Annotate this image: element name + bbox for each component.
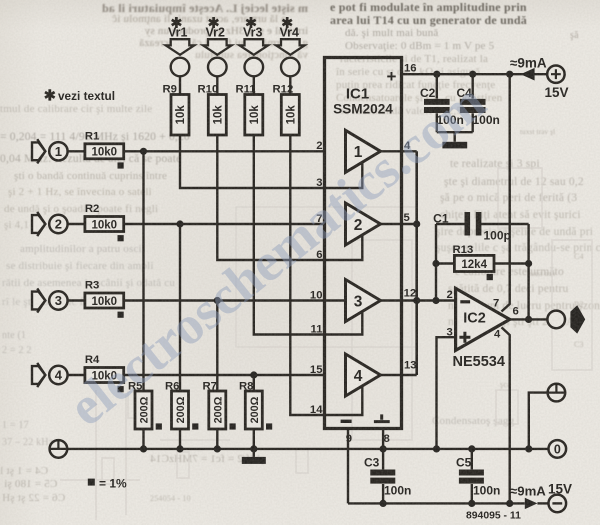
wire divider column ch1 — [142, 151, 144, 391]
svg-text:200Ω: 200Ω — [249, 396, 261, 423]
svg-text:894095 - 11: 894095 - 11 — [466, 511, 521, 522]
node earth stub — [525, 445, 532, 452]
note vezi textul — [45, 89, 115, 103]
wire input1 row (pin 2) — [68, 150, 325, 152]
wire feedback left stub — [435, 224, 437, 301]
svg-text:5: 5 — [404, 212, 410, 224]
svg-text:14: 14 — [310, 404, 323, 416]
resistor R8 200R — [239, 380, 272, 449]
wire feedback right stub — [527, 224, 529, 319]
note 1 percent — [88, 476, 127, 490]
node feedback R13 left — [432, 260, 439, 267]
resistor R1 10k0 — [85, 130, 124, 168]
svg-text:Vr1: Vr1 — [168, 26, 188, 40]
wire pin16 supply rail — [402, 73, 548, 75]
op-amp cell 3 — [346, 280, 381, 322]
svg-text:2: 2 — [55, 217, 62, 232]
svg-text:2: 2 — [447, 289, 453, 301]
svg-text:100p: 100p — [484, 228, 511, 242]
svg-text:10k: 10k — [285, 105, 297, 125]
svg-text:11: 11 — [311, 323, 323, 335]
svg-text:4: 4 — [354, 368, 363, 385]
svg-text:R6: R6 — [165, 380, 179, 392]
svg-text:C1: C1 — [433, 211, 449, 225]
svg-text:8: 8 — [384, 433, 390, 445]
svg-text:Vr2: Vr2 — [206, 26, 226, 40]
svg-text:R9: R9 — [163, 84, 177, 96]
wire IC2 output — [510, 318, 548, 320]
svg-text:+: + — [387, 67, 397, 86]
wire pin 6 row from Vr2 column — [217, 135, 362, 260]
input connector J2 — [32, 212, 68, 236]
svg-text:≈9mA: ≈9mA — [510, 484, 546, 499]
input connector J1 — [32, 139, 68, 163]
node divider ch2 — [176, 220, 183, 227]
wire output amp4 to bus — [381, 374, 417, 376]
wire summing bus — [415, 151, 418, 375]
node bus R8 — [250, 445, 257, 452]
node feedback input — [432, 297, 439, 304]
node bus R6 — [176, 445, 183, 452]
svg-text:2: 2 — [316, 140, 322, 152]
control pot arrow Vr2 — [203, 17, 231, 95]
svg-text:200Ω: 200Ω — [212, 396, 224, 423]
arrow current 9mA top — [521, 68, 535, 81]
node feedback output — [525, 316, 532, 323]
node C2 top — [433, 71, 440, 78]
capacitor C1 100p — [433, 211, 528, 242]
node IC2 pin7 top — [506, 71, 513, 78]
svg-text:NE5534: NE5534 — [453, 354, 505, 370]
node bus R5 — [140, 445, 147, 452]
terminal +15V — [545, 66, 569, 101]
node bus R7 — [214, 445, 221, 452]
IC1 V- mark — [341, 420, 352, 423]
svg-text:Vr4: Vr4 — [280, 26, 300, 40]
svg-text:R7: R7 — [203, 380, 217, 392]
resistor R4 10k0 — [85, 354, 124, 392]
terminal 0V — [549, 440, 567, 458]
IC1 gnd mark — [374, 414, 390, 421]
resistor R5 200R — [128, 380, 162, 449]
pin labels IC2 — [447, 289, 519, 340]
node C4 top — [469, 71, 476, 78]
wire divider column ch3 — [216, 301, 218, 392]
ground bar bottom — [242, 449, 266, 464]
IC1 SSM2024 box — [325, 58, 402, 429]
ground bar top — [442, 142, 467, 149]
wire -15V rail — [348, 502, 525, 504]
pin labels IC1 right and bottom — [346, 63, 417, 445]
control pot arrow Vr1 — [166, 17, 194, 95]
op-amp cell 4 — [346, 354, 381, 396]
svg-text:R10: R10 — [198, 84, 219, 96]
svg-text:SSM2024: SSM2024 — [333, 102, 393, 117]
svg-text:R1: R1 — [85, 130, 99, 142]
svg-text:100n: 100n — [384, 483, 411, 497]
svg-text:15: 15 — [310, 364, 323, 376]
wire divider column ch4 — [253, 375, 255, 391]
wire pin 3 row from Vr1 column — [180, 135, 362, 188]
svg-text:16: 16 — [404, 63, 417, 75]
svg-text:6: 6 — [513, 305, 519, 317]
svg-text:0: 0 — [554, 443, 561, 457]
svg-text:R2: R2 — [85, 203, 99, 215]
svg-text:Vr3: Vr3 — [243, 26, 263, 40]
pin labels IC1 left — [310, 140, 323, 416]
node divider ch4 — [250, 371, 257, 378]
node C3 rail — [380, 500, 387, 507]
op-amp U2 IC2 NE5534 — [453, 288, 510, 370]
wire output amp2 to bus — [381, 223, 417, 225]
node bus amp3 — [413, 297, 420, 304]
svg-text:15V: 15V — [548, 482, 572, 497]
svg-text:10k: 10k — [249, 105, 261, 125]
wire IC2 pin3 — [437, 337, 456, 449]
svg-text:10k0: 10k0 — [92, 296, 118, 308]
input connector J4 — [32, 363, 68, 387]
capacitor C3 100n — [364, 449, 411, 504]
wire pin8 to 0V — [382, 429, 384, 449]
terminal -15V — [548, 482, 572, 513]
svg-text:10: 10 — [310, 289, 323, 301]
control pot arrow Vr4 — [276, 17, 304, 95]
resistor R10 10k — [198, 84, 227, 135]
svg-text:10k0: 10k0 — [92, 219, 118, 231]
node C5 bus — [468, 445, 475, 452]
node bus amp2 — [413, 220, 420, 227]
wire pin 11 row from Vr3 column — [254, 135, 362, 335]
node pin4 rail — [506, 500, 513, 507]
svg-text:10k: 10k — [212, 105, 224, 125]
wire input3 row (pin 10) to IC2 pin 2 — [68, 299, 456, 301]
svg-text:vezi textul: vezi textul — [58, 89, 115, 103]
svg-text:= 1%: = 1% — [99, 476, 127, 490]
svg-text:3: 3 — [55, 293, 62, 308]
control pot arrow Vr3 — [240, 17, 268, 95]
svg-text:IC2: IC2 — [463, 311, 486, 327]
wire IC2 pin4 supply — [502, 327, 510, 503]
node pin8 — [380, 445, 387, 452]
svg-text:100n: 100n — [473, 483, 500, 497]
capacitor C2 100n — [420, 74, 464, 132]
resistor R3 10k0 — [85, 280, 124, 318]
node divider ch3 — [214, 297, 221, 304]
svg-text:12: 12 — [404, 287, 417, 299]
svg-text:13: 13 — [404, 359, 417, 371]
wire pin 14 row from Vr4 column — [290, 135, 362, 415]
wire 0V bus — [67, 448, 548, 450]
svg-text:1: 1 — [55, 144, 62, 159]
svg-text:200Ω: 200Ω — [175, 396, 187, 423]
svg-text:R8: R8 — [239, 380, 253, 392]
resistor R12 10k — [273, 84, 300, 135]
wire IC2 pin7 supply — [502, 74, 510, 311]
svg-text:4: 4 — [55, 368, 63, 383]
resistor R11 10k — [236, 84, 263, 135]
wire input2 row (pin 7) — [68, 223, 325, 225]
op-amp cell 1 — [346, 130, 381, 172]
svg-text:R11: R11 — [236, 84, 256, 96]
wire output amp1 to bus — [381, 150, 417, 152]
resistor R13 12k4 — [436, 244, 529, 280]
svg-text:R3: R3 — [85, 280, 99, 292]
svg-text:7: 7 — [493, 297, 499, 309]
svg-text:10k: 10k — [175, 105, 187, 125]
arrow current 9mA bottom — [525, 498, 538, 509]
svg-text:3: 3 — [354, 293, 363, 310]
resistor R9 10k — [163, 84, 190, 135]
terminal ground left — [50, 440, 68, 458]
resistor R7 200R — [203, 380, 236, 449]
wire input4 row (pin 15) — [68, 374, 325, 376]
verso bleed ghost lines — [60, 168, 592, 520]
resistor R6 200R — [165, 380, 198, 449]
svg-text:IC1: IC1 — [346, 86, 369, 103]
node IC2 pin3 ground — [433, 445, 440, 452]
op-amp cell 2 — [346, 203, 381, 245]
svg-text:15V: 15V — [545, 85, 569, 100]
svg-text:R12: R12 — [273, 84, 294, 96]
node divider ch1 — [140, 148, 147, 155]
resistor R2 10k0 — [85, 203, 124, 241]
svg-text:4: 4 — [494, 328, 501, 340]
svg-text:R13: R13 — [453, 244, 474, 256]
svg-text:10k0: 10k0 — [92, 147, 118, 159]
output connector — [547, 305, 585, 333]
wire pin9 to -15V rail — [347, 429, 349, 504]
capacitor C5 100n — [456, 449, 500, 504]
terminal earth right — [529, 384, 565, 449]
node C5 rail — [468, 500, 475, 507]
wire arrow to terminal — [537, 502, 548, 504]
wire C2 C4 to ground — [437, 132, 473, 142]
svg-text:C5: C5 — [456, 456, 472, 470]
input connector J3 — [32, 288, 68, 312]
capacitor C4 100n — [457, 74, 500, 132]
node feedback R13 right — [525, 260, 532, 267]
svg-text:C3: C3 — [364, 456, 380, 470]
svg-text:12k4: 12k4 — [461, 259, 487, 271]
wire divider column ch2 — [179, 224, 181, 391]
